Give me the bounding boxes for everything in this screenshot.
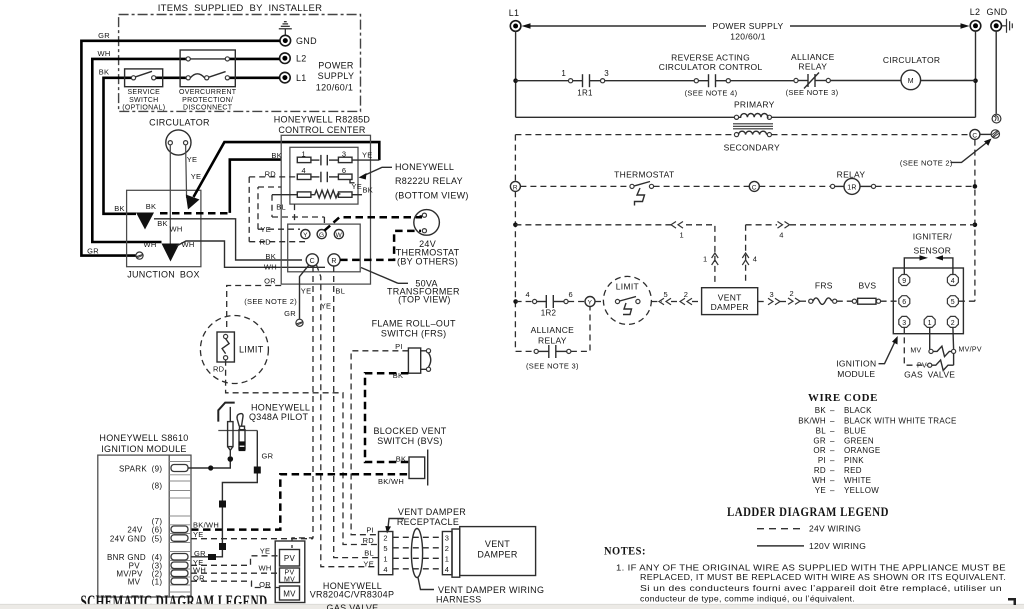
pilot bracket [218,430,257,432]
svg-text:6: 6 [902,299,906,306]
svg-text:BK: BK [363,186,374,195]
pin 2 [947,316,958,327]
svg-text:BL: BL [335,287,345,296]
svg-text:C: C [310,258,315,265]
pilot hood [218,403,234,422]
circulator lead right (YE) [186,145,187,198]
R terminal circle on rail [510,181,520,191]
svg-text:GR: GR [87,246,99,255]
svg-text:JUNCTION BOX: JUNCTION BOX [127,270,200,280]
wire OR: control box to limit [227,286,282,332]
svg-text:(6): (6) [152,526,163,535]
pin 9 [899,275,910,286]
svg-text:BLUE: BLUE [844,426,866,435]
svg-text:RD: RD [814,466,826,475]
coil left wire exiting box [272,194,297,196]
thick dashed: R to thermostat loop [340,231,421,260]
svg-text:YE: YE [260,225,271,234]
svg-text:WH: WH [169,225,182,234]
svg-text:HONEYWELL: HONEYWELL [251,402,310,412]
svg-text:PV: PV [284,554,296,563]
pin 1 [924,316,935,327]
svg-text:GND: GND [296,36,317,46]
BVS body [409,457,425,479]
terminal Y [301,230,310,239]
svg-text:CIRCULATOR: CIRCULATOR [149,118,210,128]
svg-text:–: – [830,446,835,455]
svg-text:VENT DAMPER: VENT DAMPER [398,507,466,517]
svg-text:4: 4 [753,255,757,264]
svg-text:MV/PV: MV/PV [959,347,982,354]
contact reverse acting circulator control [694,79,698,83]
svg-text:WH: WH [258,564,271,573]
right 120V rail [975,31,977,117]
wire nut arrow WH (large) [162,244,180,262]
svg-text:LADDER DIAGRAM LEGEND: LADDER DIAGRAM LEGEND [727,505,889,519]
svg-text:BK: BK [815,406,827,415]
thick dashed BK/WH: module to BVS [191,474,409,529]
GND rail to screw [995,31,997,114]
svg-text:L1: L1 [509,8,520,18]
svg-text:BK: BK [265,252,276,261]
svg-text:1: 1 [928,320,932,327]
svg-text:VENT: VENT [718,293,742,303]
24V thermostat circle [414,210,440,236]
24V wiring sample [757,528,804,530]
svg-text:HONEYWELL S8610: HONEYWELL S8610 [99,433,188,443]
svg-text:MV: MV [284,577,295,584]
svg-text:1: 1 [445,555,449,564]
svg-text:VENT DAMPER WIRING: VENT DAMPER WIRING [438,585,544,595]
svg-text:BK/WH: BK/WH [193,520,219,529]
ground symbol (power supply) [279,22,292,36]
svg-text:(SEE NOTE 2): (SEE NOTE 2) [244,297,297,306]
svg-text:G: G [319,232,324,239]
svg-text:OR: OR [264,277,276,286]
wire RD: limit to receptacle pin 5 [226,360,379,545]
svg-text:YE: YE [321,301,332,310]
svg-text:(5): (5) [152,534,163,543]
spark electrode [229,407,231,422]
svg-text:4: 4 [779,230,783,239]
svg-text:L2: L2 [970,7,981,17]
svg-text:YELLOW: YELLOW [844,486,879,495]
contact 1R2 (pins 4-6) [533,299,537,303]
svg-text:LIMIT: LIMIT [239,345,264,355]
svg-text:POWER: POWER [318,61,354,71]
120V wiring sample [757,545,804,547]
circulator lead left (WH) [169,145,171,245]
junction box [127,190,201,266]
svg-text:BL: BL [276,203,286,212]
svg-text:1. IF ANY OF THE ORIGINAL WIRE: 1. IF ANY OF THE ORIGINAL WIRE AS SUPPLI… [616,562,1006,572]
C terminal circle mid [749,181,759,191]
svg-text:THERMOSTAT: THERMOSTAT [614,170,674,180]
svg-text:GR: GR [284,309,296,318]
svg-text:CIRCULATOR: CIRCULATOR [883,55,940,65]
svg-text:GAS VALVE: GAS VALVE [327,603,379,609]
strip cell lines [169,462,191,593]
svg-text:PI: PI [818,456,826,465]
overcurrent protection box [180,50,235,87]
svg-text:LIMIT: LIMIT [616,281,639,291]
svg-text:(SEE NOTE 4): (SEE NOTE 4) [685,89,738,98]
harness ellipse [411,529,422,578]
thick dashed: G to 24V thermostat [325,215,421,230]
svg-text:2: 2 [383,534,387,543]
pin 4 [947,275,958,286]
svg-text:2: 2 [684,290,688,299]
svg-text:YE: YE [363,560,374,569]
pin 5 [947,296,958,307]
svg-text:(SEE NOTE 2): (SEE NOTE 2) [900,158,953,167]
svg-text:120/60/1: 120/60/1 [316,83,353,93]
svg-text:BL: BL [364,548,374,557]
svg-text:HONEYWELL: HONEYWELL [395,162,454,172]
dashed cluster left of control box [249,176,297,178]
right rail elbow to pin 5 [958,300,975,302]
svg-text:MODULE: MODULE [837,369,875,379]
wire WH (L2) thick left portion [92,59,186,242]
svg-text:24V WIRING: 24V WIRING [809,524,861,534]
contact 1R1 (pins 1-3) [569,79,573,83]
wire BK (L1) thick [104,78,137,214]
svg-text:ALLIANCE: ALLIANCE [791,52,835,62]
svg-text:BLACK: BLACK [844,406,872,415]
svg-text:FRS: FRS [815,281,833,291]
vent damper wiring harness callout [418,578,434,590]
wire YE(5) module to gas valve column [191,538,313,540]
svg-text:VENT: VENT [485,539,510,549]
svg-text:DISCONNECT: DISCONNECT [183,104,233,111]
ground symbol right [1002,19,1013,33]
wire YE(3) module to gas valve PV [191,556,280,566]
svg-text:1: 1 [703,255,707,264]
svg-text:PRIMARY: PRIMARY [734,100,775,110]
power supply line [528,25,706,27]
limit switch body [217,332,234,362]
column YE from C to gas valve PV [292,266,313,548]
svg-text:YE: YE [362,151,373,160]
svg-text:PINK: PINK [844,456,864,465]
transformer secondary [734,133,738,137]
LIMIT dashed circle (ladder) [603,276,651,324]
pin 6 [899,296,910,307]
control center outer box [281,135,370,284]
svg-text:4: 4 [383,565,387,574]
svg-text:24V GND: 24V GND [110,534,146,543]
wire nut arrow BK [136,213,154,230]
svg-text:REPLACED, IT MUST BE REPLACED: REPLACED, IT MUST BE REPLACED WITH WIRE … [640,572,1006,582]
svg-text:–: – [830,406,835,415]
svg-text:BLACK WITH WHITE TRACE: BLACK WITH WHITE TRACE [844,416,957,425]
svg-text:BVS: BVS [858,281,876,291]
svg-text:GR: GR [98,31,110,40]
svg-text:conducteur de type, comme indi: conducteur de type, comme indiqué, ou l’… [640,594,855,604]
svg-text:(OPTIONAL): (OPTIONAL) [122,104,165,111]
svg-text:Q348A PILOT: Q348A PILOT [249,412,309,422]
svg-text:RED: RED [844,466,862,475]
svg-text:Y: Y [588,299,593,306]
LIMIT dashed circle [200,316,268,384]
svg-text:ALLIANCE: ALLIANCE [531,325,575,335]
wire WH(2) module to gas valve PV/MV [191,572,280,574]
svg-text:YE: YE [191,172,202,181]
svg-text:3: 3 [770,290,774,299]
svg-text:PI: PI [366,526,374,535]
wire GR (gnd) thick [81,41,280,256]
svg-text:2: 2 [951,320,955,327]
contact alliance relay NC [794,78,798,82]
svg-text:HONEYWELL R8285D: HONEYWELL R8285D [274,115,371,125]
FRS body [408,348,420,373]
wire GR module to pilot [191,431,257,557]
svg-text:WH: WH [264,263,277,272]
svg-text:IGNITER/: IGNITER/ [913,232,953,242]
svg-text:5: 5 [951,299,955,306]
terminal L2 [280,53,291,64]
igniter/sensor bracket [904,258,922,274]
svg-text:YE: YE [301,287,312,296]
svg-text:4: 4 [951,278,955,285]
svg-text:MV: MV [910,348,921,355]
svg-text:RELAY: RELAY [538,336,567,346]
wire PI: FRS to receptacle pin 2 [351,351,408,535]
terminal G [317,230,326,239]
svg-text:CIRCULATOR CONTROL: CIRCULATOR CONTROL [659,62,763,72]
relay coil 1R [844,178,860,194]
svg-text:–: – [830,437,835,446]
svg-text:–: – [830,426,835,435]
harness wires [393,536,443,538]
svg-text:YE: YE [260,546,271,555]
svg-text:–: – [830,476,835,485]
module box [893,268,963,334]
svg-text:DAMPER: DAMPER [477,550,518,560]
circulator motor M [901,70,921,90]
svg-text:24V: 24V [127,526,142,535]
svg-text:REVERSE ACTING: REVERSE ACTING [671,52,750,62]
svg-text:BK: BK [99,68,110,77]
pin 3 [899,316,910,327]
svg-text:(SEE NOTE 3): (SEE NOTE 3) [526,362,579,371]
terminal GND [280,35,291,46]
svg-text:R: R [331,258,336,265]
R8222U relay inner box [290,147,358,204]
svg-text:Y: Y [303,232,308,239]
svg-text:YE: YE [352,182,363,191]
thermostat switch symbol [630,184,634,188]
svg-text:SWITCH (FRS): SWITCH (FRS) [381,328,447,338]
svg-text:GR: GR [813,437,826,446]
svg-text:BK: BK [271,151,282,160]
svg-text:–: – [830,466,835,475]
svg-text:RD: RD [213,365,225,374]
svg-text:IGNITION: IGNITION [836,359,876,369]
svg-text:BLOCKED VENT: BLOCKED VENT [373,426,446,436]
svg-text:4: 4 [445,565,449,574]
svg-text:C: C [972,132,977,139]
svg-text:W: W [336,232,343,239]
bottom right corner mark [1008,598,1016,605]
svg-text:(BOTTOM VIEW): (BOTTOM VIEW) [395,191,469,201]
svg-text:1R: 1R [847,184,857,191]
svg-text:MV: MV [283,590,296,599]
receptacle connector [379,532,393,575]
bottom scan band [0,605,1024,609]
svg-text:FLAME ROLL–OUT: FLAME ROLL–OUT [372,319,456,329]
svg-text:SWITCH: SWITCH [129,97,158,104]
transformer core [733,124,773,129]
svg-text:BL: BL [816,426,827,435]
secondary dashed rung to C [515,134,734,136]
svg-text:YE: YE [193,530,204,539]
svg-text:WH: WH [97,49,110,58]
YE thick wire diagonal with arrow [194,142,380,197]
svg-text:4: 4 [526,290,530,299]
svg-text:ITEMS SUPPLIED BY INSTALLER: ITEMS SUPPLIED BY INSTALLER [158,3,323,14]
vent damper feed rung (1 / 4 plugs) [515,224,672,226]
svg-text:–: – [830,486,835,495]
vent damper box [460,527,536,576]
svg-text:YE: YE [187,155,198,164]
svg-text:1: 1 [561,69,566,78]
C terminal circle [970,129,980,139]
svg-text:R: R [513,184,518,191]
svg-text:5: 5 [663,290,667,299]
svg-text:GREEN: GREEN [844,437,874,446]
svg-text:–: – [830,416,835,425]
svg-text:R8222U RELAY: R8222U RELAY [395,176,463,186]
column YE from C to receptacle pin 4 [317,265,379,567]
svg-text:120/60/1: 120/60/1 [730,32,766,42]
svg-text:SWITCH (BVS): SWITCH (BVS) [377,436,443,446]
terminal R [328,254,340,266]
flame sensor [237,414,243,427]
left 120V rail [515,31,517,117]
thick BK wire junction box to relay contact 1 [230,160,281,213]
svg-text:GR: GR [262,452,274,461]
vent damper box (ladder) [702,288,758,315]
svg-text:L2: L2 [296,53,307,63]
thermostat rung [520,185,630,187]
thin WH wire junction box to control center [177,241,326,267]
right 24V dashed rail [974,140,976,302]
3 / 2 plug chevrons right [758,301,767,303]
svg-text:PI: PI [395,342,403,351]
terminal W [334,230,343,239]
svg-text:BNR GND: BNR GND [107,553,146,562]
svg-text:YE: YE [815,486,826,495]
svg-text:CONTROL CENTER: CONTROL CENTER [278,125,366,135]
relay coil row [297,192,311,197]
svg-text:PROTECTION/: PROTECTION/ [182,97,233,104]
svg-text:WIRE CODE: WIRE CODE [808,393,878,404]
screw right of C [991,130,999,138]
svg-text:SECONDARY: SECONDARY [724,142,780,152]
svg-text:IGNITION MODULE: IGNITION MODULE [101,444,187,454]
svg-text:M: M [908,78,914,85]
vent damper plug [442,532,452,575]
50VA transformer box (top view) [288,224,361,272]
terminal pills [171,465,188,585]
svg-text:NOTES:: NOTES: [604,544,646,558]
dashed 24v segment in junction box [160,212,228,215]
svg-text:BK: BK [146,202,157,211]
svg-text:(TOP VIEW): (TOP VIEW) [398,295,451,305]
svg-text:2: 2 [445,544,449,553]
svg-text:–: – [830,456,835,465]
thick dashed BK: FRS to BVS [365,373,409,462]
svg-text:RECEPTACLE: RECEPTACLE [397,517,459,527]
svg-text:6: 6 [569,290,573,299]
svg-text:1: 1 [383,555,387,564]
svg-text:5: 5 [383,544,387,553]
wire WH between overcurrent and L2 [229,58,279,61]
left 24V dashed rail [514,135,516,182]
contact alliance relay (bottom rung) [534,349,538,353]
svg-text:(9): (9) [152,464,163,473]
svg-text:C: C [752,184,757,191]
svg-text:HARNESS: HARNESS [436,595,482,605]
svg-text:GND: GND [987,7,1008,17]
spark wire module to igniter [188,459,230,468]
service switch box [125,69,163,87]
svg-text:Si un des conducteurs fourni a: Si un des conducteurs fourni avec l’appa… [640,583,1002,593]
column BL from R to receptacle pin 1 [334,266,379,558]
svg-text:BK: BK [114,204,125,213]
circulator motor circle [166,130,191,155]
junction box GR screw [136,252,143,259]
svg-text:WH: WH [143,240,156,249]
svg-text:L1: L1 [296,73,307,83]
svg-text:1R2: 1R2 [541,309,557,318]
GR wire from C terminal to ground screw [300,265,309,319]
svg-text:BK/WH: BK/WH [378,477,404,486]
svg-text:GAS VALVE: GAS VALVE [904,370,955,380]
svg-text:SENSOR: SENSOR [914,245,952,255]
svg-text:PV: PV [285,570,295,577]
items-supplied-by-installer dashed border [119,15,361,112]
svg-text:DAMPER: DAMPER [711,302,749,312]
Y terminal circle [585,297,595,307]
svg-text:SERVICE: SERVICE [127,89,160,96]
svg-text:VR8204C/VR8304P: VR8204C/VR8304P [310,590,395,600]
svg-text:BK: BK [157,219,168,228]
svg-text:(8): (8) [152,481,163,490]
svg-text:9: 9 [902,278,906,285]
svg-text:(1): (1) [152,577,163,586]
svg-text:POWER SUPPLY: POWER SUPPLY [713,21,784,31]
svg-text:SUPPLY: SUPPLY [318,71,355,81]
svg-text:SPARK: SPARK [119,464,147,473]
svg-text:(BY OTHERS): (BY OTHERS) [397,257,458,267]
svg-text:OVERCURRENT: OVERCURRENT [179,89,237,96]
svg-text:120V WIRING: 120V WIRING [809,541,866,551]
svg-text:(SEE NOTE 3): (SEE NOTE 3) [786,88,839,97]
wire OR(1) module to gas valve MV [191,581,280,587]
svg-text:RD: RD [260,238,272,247]
svg-text:3: 3 [604,69,609,78]
gas valve (ladder) [929,327,931,349]
svg-text:BK: BK [396,455,407,464]
terminal L1 [280,72,291,83]
svg-text:ORANGE: ORANGE [844,446,880,455]
svg-text:WHITE: WHITE [844,476,871,485]
svg-text:OR: OR [813,446,826,455]
svg-text:3: 3 [902,320,906,327]
wire rung 2 from L1 rail [516,80,569,82]
